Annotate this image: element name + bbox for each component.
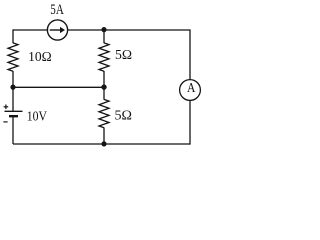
- svg-text:5Ω: 5Ω: [115, 48, 132, 63]
- junction dot left middle: [10, 85, 15, 90]
- svg-text:5Ω: 5Ω: [115, 108, 133, 123]
- wire left rail upper lead: [12, 29, 14, 43]
- junction dot center: [101, 84, 106, 89]
- resistor 5ohm upper zigzag: [99, 43, 109, 71]
- wire top-right segment and right rail upper: [67, 30, 190, 80]
- junction dot bottom middle: [101, 141, 106, 146]
- junction dot top middle: [101, 27, 106, 32]
- resistor 5ohm lower zigzag: [99, 99, 109, 127]
- wire middle horizontal: [13, 86, 104, 88]
- svg-text:10V: 10V: [27, 110, 47, 125]
- wire left rail between resistor and battery: [12, 71, 14, 111]
- wire bottom rail: [13, 143, 190, 145]
- svg-text:5A: 5A: [50, 2, 64, 18]
- wire middle branch lower lead: [103, 128, 105, 145]
- ammeter A: [180, 80, 201, 101]
- current source 5A: [47, 20, 67, 40]
- svg-text:A: A: [187, 80, 196, 95]
- wire right rail lower: [189, 101, 191, 145]
- wire middle branch between resistors: [103, 71, 105, 100]
- svg-text:10Ω: 10Ω: [28, 50, 52, 65]
- wire battery to bottom-left corner: [12, 116, 14, 144]
- battery 10V: [3, 105, 22, 122]
- resistor 10ohm zigzag: [8, 43, 18, 71]
- wire top-left segment: [13, 29, 48, 31]
- wire middle branch upper lead: [103, 30, 105, 43]
